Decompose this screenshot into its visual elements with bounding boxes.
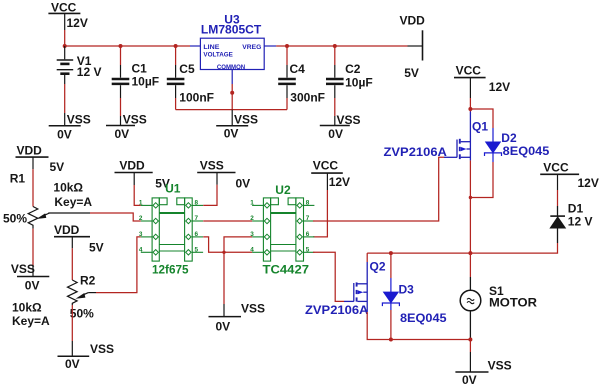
- node: wire crossing: [222, 251, 225, 254]
- wire top rail (12V bus): [65, 45, 408, 47]
- svg-text:LINE: LINE: [203, 44, 220, 51]
- svg-text:12f675: 12f675: [152, 262, 189, 276]
- svg-text:C5: C5: [179, 62, 195, 76]
- svg-text:12 V: 12 V: [77, 65, 102, 79]
- wire D1 to motor rail: [470, 243, 557, 253]
- svg-text:VSS: VSS: [123, 112, 147, 126]
- wire motor top lead: [469, 253, 471, 277]
- svg-text:VSS: VSS: [241, 302, 265, 316]
- potentiometer R2 10k 50% Key=A: [12, 273, 96, 327]
- svg-text:VCC: VCC: [51, 0, 77, 14]
- potentiometer R1 10k 50% Key=A: [3, 171, 92, 228]
- svg-text:0V: 0V: [65, 357, 80, 371]
- wire C1 to ground: [120, 98, 122, 116]
- svg-text:C4: C4: [290, 62, 306, 76]
- svg-text:10µF: 10µF: [132, 75, 160, 89]
- svg-text:Key=A: Key=A: [12, 314, 50, 328]
- svg-text:2: 2: [139, 215, 143, 222]
- svg-text:300nF: 300nF: [290, 90, 325, 104]
- svg-text:4: 4: [139, 247, 143, 254]
- wire U2 pin5 to Q2 gate: [313, 252, 344, 301]
- capacitor C2 10uF: [326, 62, 373, 98]
- node: motor top junction: [468, 251, 472, 255]
- power VSS (U1 pin8) 0V: [197, 159, 250, 191]
- svg-text:LM7805CT: LM7805CT: [201, 22, 262, 36]
- svg-text:0V: 0V: [224, 127, 239, 141]
- svg-text:VDD: VDD: [119, 159, 145, 173]
- wire Q2 drain vertical: [366, 253, 368, 262]
- svg-text:6: 6: [306, 231, 310, 238]
- svg-text:VSS: VSS: [11, 262, 35, 276]
- svg-text:5V: 5V: [50, 160, 65, 174]
- diode D3 8EQ045 (flyback across Q2): [382, 278, 447, 325]
- node: D3 top junction: [389, 251, 393, 255]
- svg-text:6: 6: [195, 231, 199, 238]
- power VDD (R1 top) 5V: [16, 143, 65, 174]
- wire VCC to Q1: [469, 98, 471, 109]
- power VCC (U2 pin6) 12V: [311, 158, 350, 190]
- svg-text:5V: 5V: [404, 66, 419, 80]
- svg-text:VDD: VDD: [54, 223, 80, 237]
- svg-text:1: 1: [250, 200, 254, 207]
- power VCC (D1 cathode) 12V: [540, 161, 599, 190]
- svg-text:12V: 12V: [578, 176, 599, 190]
- ground VSS (U2 pin3) 0V: [209, 302, 266, 334]
- wire VSS to U1 pin8: [203, 185, 217, 206]
- wire rail to C2: [334, 46, 336, 65]
- svg-text:10kΩ: 10kΩ: [12, 300, 42, 314]
- power VCC (Q1 source) 12V: [454, 63, 510, 98]
- svg-text:8: 8: [195, 200, 199, 207]
- wire U2 pin7 to Q1 gate: [313, 157, 444, 221]
- svg-text:100nF: 100nF: [179, 90, 214, 104]
- svg-text:Q1: Q1: [472, 120, 488, 134]
- wire C5 to common net: [175, 98, 177, 110]
- node: D2/drain junction: [469, 196, 472, 199]
- microcontroller U1 12f675: [141, 181, 203, 276]
- power VDD (5V rail, rotated): [400, 13, 426, 79]
- svg-text:0V: 0V: [216, 319, 231, 333]
- wire VCC to battery junction: [64, 30, 66, 46]
- wire U1 pin6 to U2 pin4: [203, 237, 252, 252]
- wire VCC to U2 pin6: [313, 190, 327, 237]
- svg-text:VSS: VSS: [200, 159, 224, 173]
- ground VSS (C2) 0V: [320, 113, 361, 141]
- wire rail to C4: [286, 46, 288, 65]
- svg-text:ZVP2106A: ZVP2106A: [305, 303, 369, 317]
- svg-text:VSS: VSS: [488, 359, 512, 373]
- wire D2 branch top: [470, 109, 493, 128]
- svg-text:VOLTAGE: VOLTAGE: [203, 52, 233, 59]
- wire rail to C1: [120, 46, 122, 65]
- wire C4 to common net: [286, 98, 288, 110]
- svg-text:U1: U1: [165, 181, 181, 195]
- wire rail to C5: [175, 46, 177, 65]
- svg-text:VSS: VSS: [67, 112, 91, 126]
- capacitor C1 10uF: [112, 62, 159, 98]
- svg-text:8: 8: [306, 200, 310, 207]
- node: C5 top junction: [174, 44, 178, 48]
- svg-text:10µF: 10µF: [345, 75, 373, 89]
- wire U1 pin7 to U2 pin2: [203, 220, 252, 222]
- wire C2 to ground: [334, 98, 336, 116]
- svg-text:0V: 0V: [25, 279, 40, 293]
- svg-text:TC4427: TC4427: [263, 262, 310, 276]
- capacitor C4 300nF: [278, 62, 325, 104]
- wire VDD to U1 pin1: [134, 185, 141, 205]
- ground VSS (battery) 0V: [49, 112, 91, 141]
- U2 pin numbers: [250, 200, 310, 254]
- svg-text:VCC: VCC: [313, 158, 339, 172]
- wire VCC to D1: [557, 190, 559, 206]
- svg-text:VSS: VSS: [234, 113, 258, 127]
- svg-text:VREG: VREG: [242, 44, 261, 51]
- svg-text:1: 1: [139, 200, 143, 207]
- ground VSS (R2) 0V: [58, 341, 115, 371]
- power VCC (top-left, 12V rail): [48, 0, 87, 30]
- wire Q1 vertical (source to drain rail): [469, 109, 471, 253]
- svg-text:MOTOR: MOTOR: [489, 295, 537, 309]
- diode D2 8EQ045 (flyback across Q1): [485, 128, 550, 162]
- svg-text:12V: 12V: [489, 80, 510, 94]
- svg-text:12V: 12V: [67, 16, 88, 30]
- svg-text:12 V: 12 V: [568, 214, 593, 228]
- wire D2 return to drain: [470, 162, 493, 198]
- U1 pin numbers: [139, 200, 199, 254]
- node: C4 top junction: [285, 44, 289, 48]
- svg-text:7: 7: [306, 215, 310, 222]
- wire D3 cathode to source rail: [390, 310, 392, 340]
- svg-text:VSS: VSS: [90, 342, 114, 356]
- wire U3 common to ground net: [231, 84, 233, 110]
- svg-text:D3: D3: [399, 282, 415, 296]
- svg-text:U2: U2: [275, 183, 291, 197]
- svg-text:VCC: VCC: [543, 161, 569, 175]
- transistor Q2 ZVP2106A (p-MOSFET): [305, 259, 386, 317]
- svg-text:7: 7: [195, 215, 199, 222]
- wire VDD to R2: [71, 248, 73, 280]
- wire R1 wiper to U1 pin2: [48, 213, 141, 221]
- wire R2 wiper to U1 pin3: [88, 237, 140, 293]
- wire R2 bottom to ground: [71, 305, 73, 341]
- svg-text:Key=A: Key=A: [54, 195, 92, 209]
- svg-text:D1: D1: [568, 201, 584, 215]
- svg-text:3: 3: [139, 231, 143, 238]
- power VDD (U1 pin1) 5V: [115, 159, 170, 191]
- svg-text:50%: 50%: [70, 307, 94, 321]
- node: Q1 source / D2 tee: [468, 107, 472, 111]
- capacitor C5 100nF: [167, 62, 214, 104]
- wire common net C5-C4: [176, 109, 287, 111]
- ground VSS (C1) 0V: [106, 112, 147, 141]
- svg-text:VSS: VSS: [337, 113, 361, 127]
- svg-text:0V: 0V: [236, 176, 251, 190]
- motor S1: [460, 277, 537, 340]
- node: D3 bottom junction: [389, 338, 393, 342]
- svg-text:COMMON: COMMON: [217, 64, 246, 71]
- svg-text:50%: 50%: [3, 211, 27, 225]
- svg-text:12V: 12V: [329, 175, 350, 189]
- svg-text:5V: 5V: [89, 241, 104, 255]
- svg-text:0V: 0V: [115, 127, 130, 141]
- svg-text:VDD: VDD: [400, 13, 426, 27]
- svg-text:8EQ045: 8EQ045: [400, 311, 447, 325]
- wire U2 pin3 to ground: [224, 237, 252, 304]
- ground VSS (motor) 0V: [455, 340, 511, 386]
- svg-text:R2: R2: [80, 273, 96, 287]
- node: common pin junction: [230, 91, 234, 95]
- node: C1 top junction: [119, 44, 123, 48]
- wire Q2 drain rail (to motor junction): [367, 252, 470, 254]
- voltage regulator U3 LM7805CT: [190, 12, 276, 84]
- power VDD (R2 top) 5V: [54, 223, 104, 255]
- node: motor bottom junction: [468, 338, 472, 342]
- svg-text:D2: D2: [501, 131, 517, 145]
- svg-text:C1: C1: [132, 62, 148, 76]
- wire V1 to ground: [64, 84, 66, 113]
- battery V1 12V: [57, 46, 102, 84]
- wire D3 anode: [390, 253, 392, 278]
- svg-text:0V: 0V: [462, 373, 477, 386]
- svg-text:VCC: VCC: [456, 63, 482, 77]
- svg-text:0V: 0V: [328, 127, 343, 141]
- ground VSS (U3 common) 0V: [216, 110, 258, 141]
- diode D1 12V (black, cathode up): [550, 201, 592, 243]
- node: battery/rail junction: [63, 44, 67, 48]
- svg-text:VDD: VDD: [17, 143, 43, 157]
- driver U2 TC4427: [252, 183, 314, 277]
- node: C2 top junction: [333, 44, 337, 48]
- svg-text:ZVP2106A: ZVP2106A: [384, 145, 448, 159]
- ground VSS (R1) 0V: [11, 262, 49, 292]
- transistor Q1 ZVP2106A (p-MOSFET): [384, 112, 489, 161]
- svg-text:R1: R1: [10, 171, 26, 185]
- svg-text:8EQ045: 8EQ045: [503, 144, 550, 158]
- svg-text:C2: C2: [345, 62, 361, 76]
- svg-text:10kΩ: 10kΩ: [53, 180, 83, 194]
- svg-text:0V: 0V: [57, 127, 72, 141]
- svg-text:5: 5: [306, 247, 310, 254]
- wire VDD to R1: [32, 169, 34, 206]
- wire R1 bottom to ground: [32, 229, 34, 266]
- svg-text:5: 5: [195, 247, 199, 254]
- wire Q2 source to motor-bottom rail: [367, 312, 470, 340]
- svg-text:Q2: Q2: [370, 259, 386, 273]
